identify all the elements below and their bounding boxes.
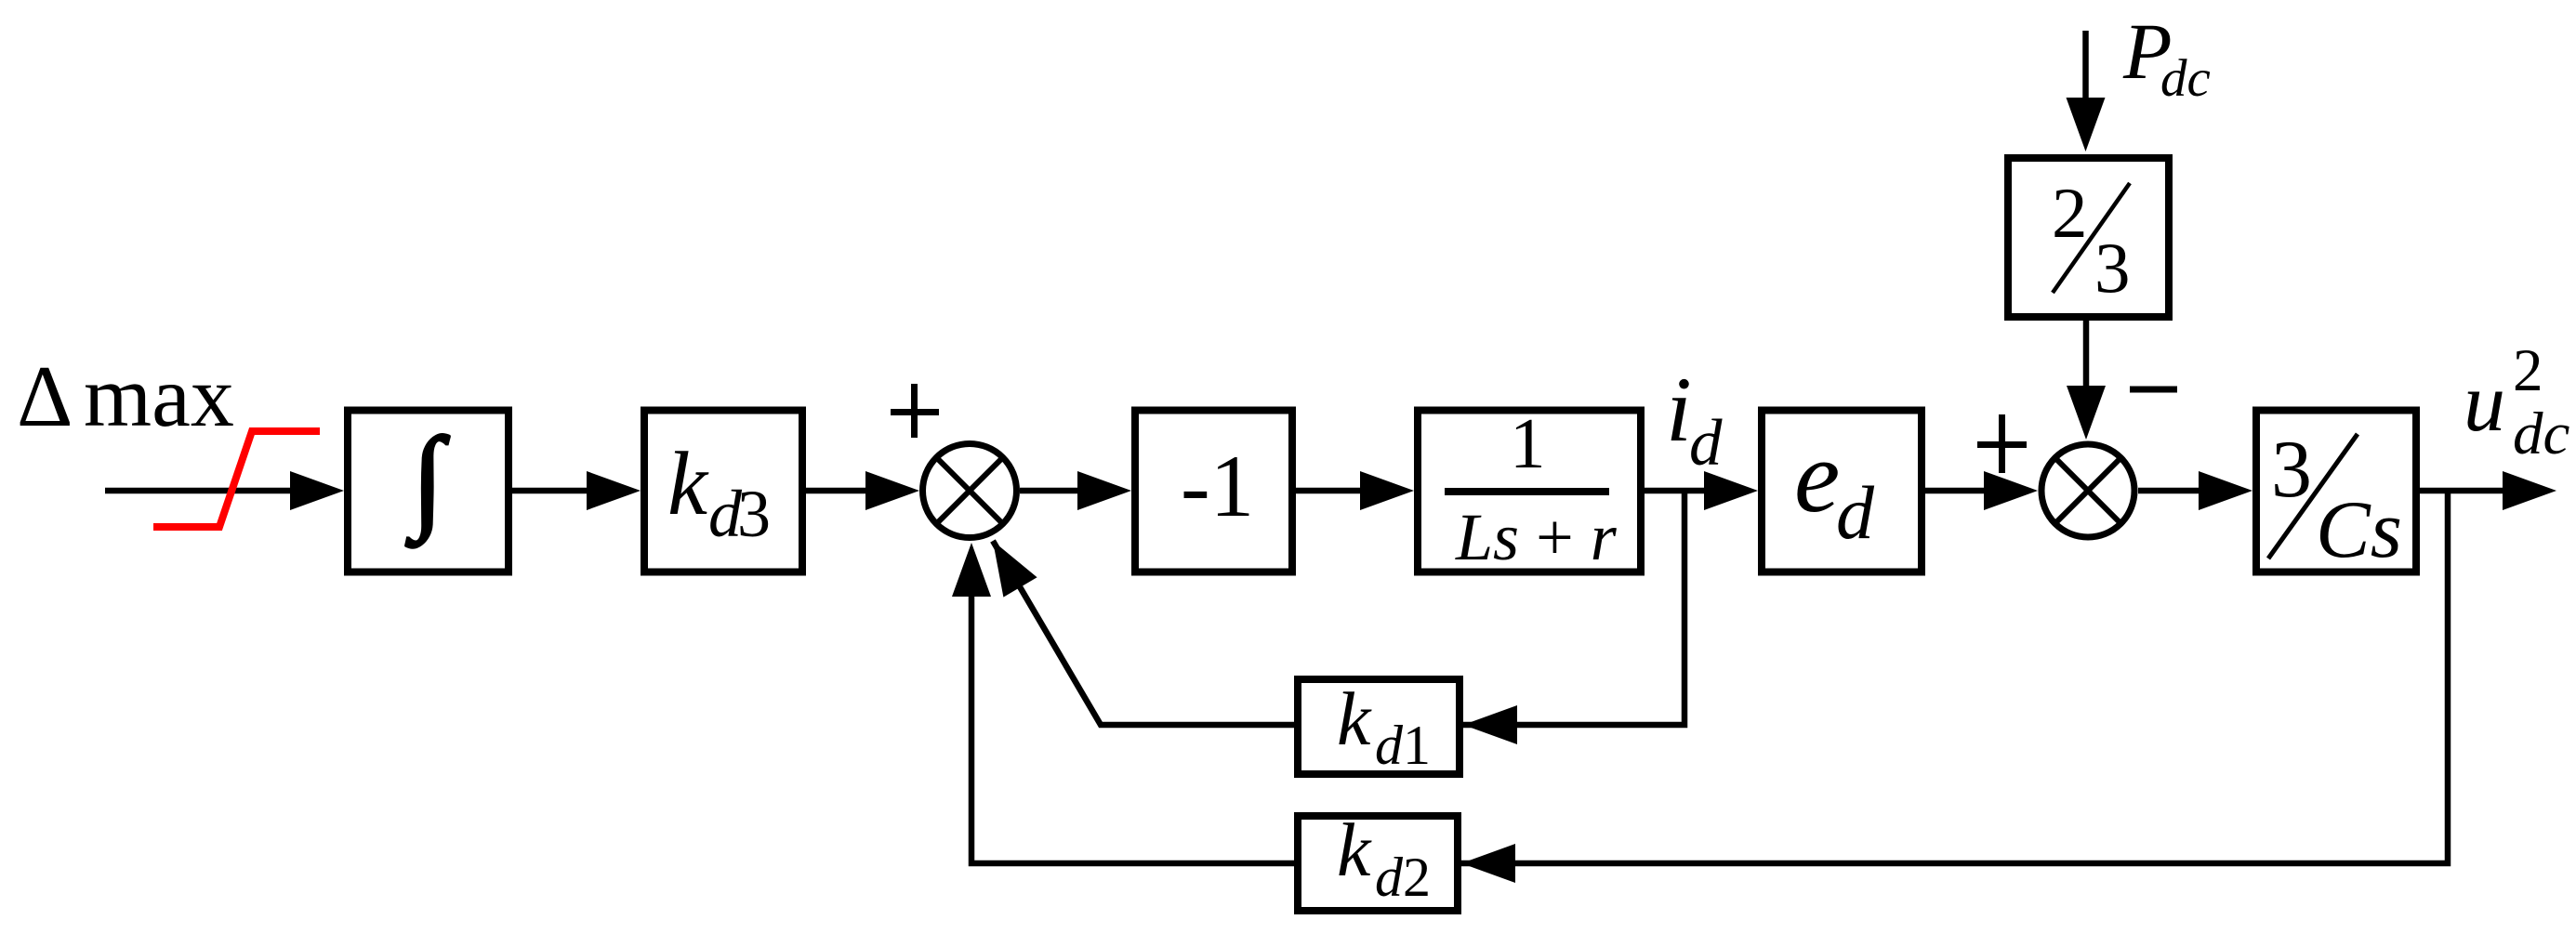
svg-text:2: 2 xyxy=(2513,337,2543,404)
svg-text:Cs: Cs xyxy=(2316,485,2402,575)
svg-text:max: max xyxy=(84,348,234,445)
svg-text:1: 1 xyxy=(1510,403,1546,483)
svg-text:Ls + r: Ls + r xyxy=(1455,500,1618,574)
svg-text:d: d xyxy=(1375,847,1404,908)
svg-text:2: 2 xyxy=(1403,847,1431,908)
svg-text:i: i xyxy=(1666,358,1692,461)
svg-text:-1: -1 xyxy=(1181,437,1254,535)
svg-text:e: e xyxy=(1794,420,1840,534)
svg-text:dc: dc xyxy=(2160,49,2211,108)
svg-text:3: 3 xyxy=(737,477,771,551)
svg-text:∫: ∫ xyxy=(405,414,450,548)
svg-text:Δ: Δ xyxy=(17,348,73,445)
svg-text:3: 3 xyxy=(2094,228,2131,308)
svg-text:u: u xyxy=(2464,357,2505,449)
svg-text:d: d xyxy=(1375,715,1404,776)
svg-text:d: d xyxy=(1836,470,1875,555)
svg-text:1: 1 xyxy=(1403,715,1431,776)
svg-text:k: k xyxy=(667,434,709,533)
svg-text:2: 2 xyxy=(2052,173,2088,253)
svg-text:3: 3 xyxy=(2271,425,2312,515)
svg-text:dc: dc xyxy=(2513,401,2570,467)
svg-text:k: k xyxy=(1337,808,1372,892)
svg-text:k: k xyxy=(1337,677,1372,761)
svg-text:d: d xyxy=(1689,407,1723,480)
